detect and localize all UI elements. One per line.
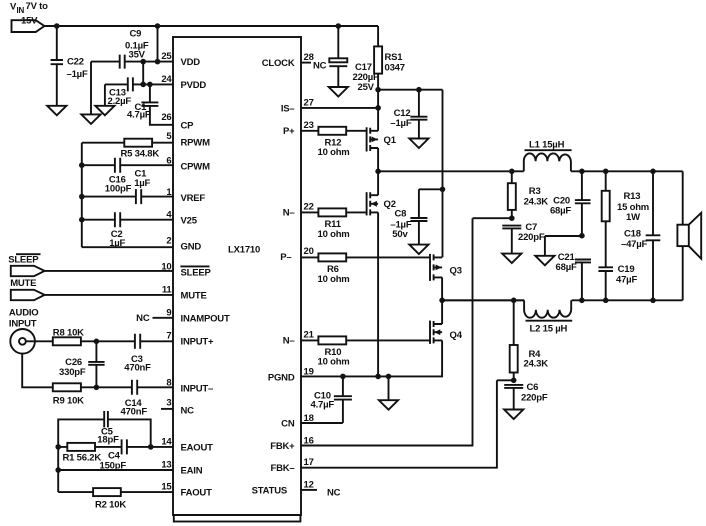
- capacitor C7: [502, 226, 521, 229]
- svg-text:R13: R13: [624, 191, 641, 202]
- svg-text:3: 3: [166, 398, 171, 409]
- node junction C13/pin24: [140, 82, 146, 88]
- wire C9 left to ground: [90, 62, 92, 115]
- node junction pin14 right: [148, 444, 154, 450]
- wire pin27 IS-: [301, 107, 378, 109]
- wire pin25 VDD row: [91, 61, 173, 63]
- svg-text:CP: CP: [181, 121, 195, 132]
- svg-text:68µF: 68µF: [556, 262, 577, 273]
- svg-text:Q1: Q1: [384, 135, 397, 146]
- node junction out/R13: [603, 169, 609, 175]
- svg-text:N–: N–: [283, 208, 295, 219]
- node junction bus/EAIN: [55, 467, 61, 473]
- node junction R9/C26/C14: [94, 385, 100, 391]
- node junction R4/C6/FBK-: [511, 378, 517, 384]
- svg-text:–1µF: –1µF: [390, 118, 411, 129]
- capacitor C8: [419, 189, 443, 217]
- op-amp U1 LX1710 IC body: [173, 37, 301, 515]
- wire L1 out segment: [571, 170, 683, 172]
- svg-text:EAIN: EAIN: [181, 465, 203, 476]
- svg-text:MUTE: MUTE: [181, 291, 207, 302]
- wire connector down to R9: [22, 354, 53, 388]
- wire Q4 source down and PGND rail: [301, 340, 442, 376]
- wire connector to R8: [34, 340, 53, 342]
- wire C13 left to ground: [104, 84, 106, 105]
- ground under C6: [504, 410, 523, 420]
- svg-text:7: 7: [166, 330, 171, 341]
- svg-text:470nF: 470nF: [121, 407, 148, 418]
- svg-text:22: 22: [304, 202, 314, 213]
- speaker LS1: [682, 171, 684, 224]
- node VIN input pointer: [12, 20, 45, 32]
- wire left bus EA: [57, 447, 59, 492]
- wire pin28 NC stub: [301, 62, 311, 64]
- ground under C17: [329, 87, 348, 97]
- svg-text:100pF: 100pF: [105, 184, 132, 195]
- capacitor C14: [132, 380, 137, 395]
- ground under C13: [95, 106, 114, 116]
- svg-text:C6: C6: [527, 382, 539, 393]
- svg-text:24: 24: [161, 74, 172, 85]
- wire pin4 V25 row: [82, 219, 173, 221]
- svg-text:INPUT: INPUT: [9, 319, 37, 330]
- node junction R8/C26/C3: [94, 339, 100, 345]
- svg-text:R5 34.8K: R5 34.8K: [121, 149, 160, 160]
- svg-text:12: 12: [304, 479, 314, 490]
- svg-text:0347: 0347: [385, 63, 405, 74]
- svg-text:5: 5: [166, 131, 172, 142]
- svg-text:27: 27: [304, 97, 314, 108]
- svg-text:20: 20: [304, 246, 314, 257]
- node junction P output: [375, 169, 381, 175]
- svg-text:24.3K: 24.3K: [524, 359, 549, 370]
- svg-text:R1 56.2K: R1 56.2K: [63, 453, 102, 464]
- resistor R4: [513, 300, 515, 380]
- wire pin7 INPUT+ row: [81, 340, 173, 342]
- node SLEEP input pointer: [11, 266, 45, 276]
- wire Q2 drain to P node: [377, 171, 379, 195]
- svg-text:2: 2: [166, 235, 171, 246]
- wire Q2 source down to PGND: [377, 212, 379, 376]
- wire pin21 N- row: [301, 339, 430, 341]
- svg-text:SLEEP: SLEEP: [181, 268, 212, 279]
- svg-text:1µF: 1µF: [134, 178, 150, 189]
- svg-text:INAMPOUT: INAMPOUT: [181, 314, 230, 325]
- svg-text:26: 26: [161, 112, 171, 123]
- svg-text:10 ohm: 10 ohm: [318, 147, 350, 158]
- transistor Q1: [366, 127, 368, 151]
- wire MUTE to pin11: [45, 294, 173, 296]
- svg-text:–47µF: –47µF: [621, 239, 648, 250]
- capacitor C2: [115, 212, 120, 227]
- ground under C12: [409, 139, 428, 149]
- svg-text:Q4: Q4: [450, 330, 463, 341]
- wire pin14 EAOUT row: [58, 446, 173, 448]
- node MUTE input pointer: [11, 290, 45, 300]
- wire C5 loop top: [58, 419, 151, 447]
- svg-text:47µF: 47µF: [616, 275, 637, 286]
- svg-text:25: 25: [161, 51, 172, 62]
- node junction VDD drop/pin25: [155, 59, 161, 65]
- wire C22 branch: [56, 26, 58, 60]
- svg-text:14: 14: [161, 436, 172, 447]
- capacitor C26: [88, 341, 104, 387]
- node junction rail/VDD drop: [155, 23, 161, 29]
- node junction out/C20: [579, 169, 585, 175]
- resistor R1: [67, 443, 95, 451]
- svg-text:EAOUT: EAOUT: [181, 442, 214, 453]
- svg-text:MUTE: MUTE: [10, 278, 36, 289]
- node junction IS-/bridge column: [375, 105, 381, 111]
- capacitor C12: [418, 90, 420, 117]
- resistor R10: [318, 336, 346, 344]
- svg-text:PVDD: PVDD: [181, 80, 207, 91]
- capacitor C6: [504, 385, 523, 388]
- svg-text:FBK–: FBK–: [270, 463, 294, 474]
- svg-text:SLEEP: SLEEP: [8, 254, 39, 265]
- resistor R2: [93, 488, 121, 496]
- wire C22 to ground: [56, 64, 58, 106]
- resistor R5: [124, 139, 152, 147]
- svg-text:INPUT–: INPUT–: [181, 384, 214, 395]
- svg-text:FBK+: FBK+: [270, 441, 295, 452]
- node junction bus/VREF: [79, 194, 85, 200]
- wire pin24 PVDD row: [105, 83, 173, 85]
- svg-text:21: 21: [304, 330, 315, 341]
- wire pin9 NC stub: [153, 317, 174, 319]
- svg-text:–1µF: –1µF: [67, 69, 88, 80]
- svg-text:220pF: 220pF: [518, 232, 545, 243]
- wire C8 column: [442, 90, 444, 258]
- wire RS1 node to C8 column: [378, 89, 442, 91]
- svg-text:4.7µF: 4.7µF: [127, 110, 151, 121]
- node junction N output: [439, 298, 445, 304]
- svg-text:INPUT+: INPUT+: [181, 336, 215, 347]
- svg-text:18pF: 18pF: [97, 435, 119, 446]
- svg-text:CN: CN: [281, 418, 295, 429]
- svg-text:IS–: IS–: [281, 103, 295, 114]
- wire pin8 INPUT- row: [81, 386, 173, 388]
- wire Q4 drain to N node: [441, 300, 443, 324]
- svg-text:STATUS: STATUS: [252, 485, 287, 496]
- svg-text:NC: NC: [136, 313, 150, 324]
- wire VIN top rail: [44, 25, 378, 27]
- wire C1 to pin26 CP: [150, 106, 173, 125]
- svg-text:7V to: 7V to: [26, 1, 49, 12]
- svg-text:IN: IN: [17, 6, 25, 15]
- svg-text:R9 10K: R9 10K: [53, 396, 84, 407]
- svg-text:10 ohm: 10 ohm: [318, 357, 350, 368]
- resistor RS1: [377, 26, 379, 90]
- svg-text:AUDIO: AUDIO: [9, 308, 39, 319]
- inductor L1: [524, 153, 571, 171]
- wire VDD drop from rail: [157, 26, 159, 62]
- wire FBK+ pin16 path: [301, 218, 512, 445]
- svg-text:CPWM: CPWM: [181, 162, 211, 173]
- wire C1 branch upper: [149, 84, 151, 101]
- capacitor C21: [575, 260, 591, 301]
- transistor Q2: [366, 192, 368, 215]
- ground at filter mid: [535, 256, 554, 265]
- wire N node to L2: [442, 299, 524, 301]
- svg-text:N–: N–: [283, 336, 295, 347]
- node junction pin14 left: [55, 444, 61, 450]
- wire pin12 NC stub: [301, 489, 317, 491]
- wire P node to L1: [378, 170, 524, 172]
- wire pin6 CPWM row: [82, 164, 173, 166]
- capacitor C5: [104, 411, 108, 427]
- capacitor C9: [120, 55, 125, 69]
- resistor R11: [318, 208, 346, 216]
- wire C9 node down to C13 row: [142, 62, 144, 85]
- resistor R13: [605, 171, 607, 267]
- svg-text:C8: C8: [395, 209, 407, 220]
- svg-text:VREF: VREF: [181, 193, 206, 204]
- resistor R9: [53, 383, 81, 391]
- svg-text:4.7µF: 4.7µF: [311, 400, 335, 411]
- svg-text:PGND: PGND: [268, 372, 295, 383]
- svg-text:NC: NC: [181, 405, 195, 416]
- svg-text:GND: GND: [181, 241, 202, 252]
- svg-text:RS1: RS1: [385, 52, 404, 63]
- node junction C1 branch: [147, 82, 153, 88]
- svg-text:11: 11: [162, 285, 173, 296]
- wire bottom output rail: [442, 299, 683, 301]
- svg-text:50v: 50v: [392, 229, 408, 240]
- node junction C8 branch: [440, 187, 446, 193]
- svg-text:CLOCK: CLOCK: [262, 58, 295, 69]
- wire C20/C21 mid to ground: [545, 236, 582, 256]
- audio input connector J1: [10, 329, 35, 354]
- svg-text:330pF: 330pF: [59, 367, 86, 378]
- node junction bus/V25: [79, 217, 85, 223]
- svg-text:NC: NC: [313, 61, 327, 72]
- svg-text:17: 17: [304, 457, 314, 468]
- wire Q1 source to P node: [377, 148, 379, 171]
- wire left bus for PWM cluster: [81, 143, 83, 248]
- ground PGND: [379, 400, 398, 410]
- resistor R12: [318, 127, 346, 135]
- node junction PGND/ground: [386, 374, 392, 380]
- wire Q1 drain: [377, 90, 379, 131]
- node junction bottom/C18: [650, 298, 656, 304]
- svg-text:6: 6: [166, 156, 171, 167]
- svg-text:R3: R3: [529, 186, 541, 197]
- ground under C8: [409, 245, 428, 255]
- transistor Q4: [429, 321, 431, 344]
- svg-text:C19: C19: [618, 264, 635, 275]
- wire pin3 NC stub: [161, 408, 173, 410]
- resistor R8: [53, 337, 81, 345]
- svg-text:Q3: Q3: [450, 265, 462, 276]
- svg-text:R2 10K: R2 10K: [95, 500, 126, 511]
- node junction rail/C17: [336, 23, 342, 29]
- wire FBK- pin17 path: [301, 380, 514, 467]
- node junction out/C18: [650, 169, 656, 175]
- svg-text:470nF: 470nF: [124, 363, 151, 374]
- transistor Q3: [429, 254, 431, 281]
- capacitor C20: [575, 171, 591, 235]
- capacitor C1 1uF: [136, 189, 141, 204]
- ground under C7: [502, 254, 521, 264]
- svg-text:9: 9: [166, 308, 171, 319]
- svg-text:68µF: 68µF: [550, 206, 571, 217]
- svg-text:R8 10K: R8 10K: [53, 328, 84, 339]
- svg-text:24.3K: 24.3K: [524, 197, 549, 208]
- svg-text:C22: C22: [67, 57, 84, 68]
- wire pin1 VREF row: [82, 196, 173, 198]
- svg-text:C12: C12: [394, 108, 411, 119]
- svg-text:15: 15: [161, 482, 172, 493]
- node junction bottom/R4: [511, 298, 517, 304]
- capacitor C16: [115, 158, 120, 173]
- node junction bus/CPWM: [79, 162, 85, 168]
- ground under C22: [47, 106, 66, 116]
- capacitor C3: [135, 334, 140, 349]
- wire Q3 source to N node: [441, 277, 443, 300]
- svg-text:P+: P+: [283, 126, 295, 137]
- resistor R6: [318, 253, 346, 261]
- wire pin18 CN row: [301, 422, 343, 424]
- capacitor C18: [646, 171, 661, 300]
- svg-text:13: 13: [161, 459, 171, 470]
- svg-text:VDD: VDD: [181, 57, 201, 68]
- wire pin20 P- row: [301, 256, 430, 258]
- capacitor C13: [128, 77, 133, 91]
- svg-text:10 ohm: 10 ohm: [318, 274, 350, 285]
- svg-text:23: 23: [304, 120, 314, 131]
- node junction C9/C13 drop: [140, 59, 146, 65]
- svg-text:P–: P–: [280, 252, 291, 263]
- wire pin13 EAIN row: [58, 469, 173, 471]
- capacitor C22: [51, 60, 63, 64]
- node junction bottom/C19: [603, 298, 609, 304]
- node junction bottom/C21: [579, 298, 585, 304]
- wire PGND ground stub: [388, 376, 390, 400]
- node junction PGND/C10: [340, 374, 346, 380]
- node junction RS1 bottom: [375, 87, 381, 93]
- resistor R3: [511, 171, 513, 218]
- ground under C9: [81, 114, 100, 124]
- svg-text:25V: 25V: [358, 82, 375, 93]
- capacitor C17 electrolytic: [337, 26, 339, 58]
- svg-text:10 ohm: 10 ohm: [318, 229, 350, 240]
- svg-text:C9: C9: [130, 29, 142, 40]
- capacitor C10: [342, 376, 344, 395]
- node junction C20/C21: [579, 233, 585, 239]
- wire pin22 N- row: [301, 211, 367, 213]
- inductor L2: [524, 300, 571, 317]
- wire pin15 FAOUT row: [58, 491, 173, 493]
- node junction P/R3: [509, 169, 515, 175]
- svg-text:LX1710: LX1710: [228, 245, 260, 256]
- svg-text:220pF: 220pF: [521, 393, 548, 404]
- svg-text:L1 15µH: L1 15µH: [529, 140, 565, 151]
- capacitor C4: [122, 439, 127, 454]
- capacitor C19: [598, 267, 613, 300]
- svg-text:10: 10: [161, 261, 171, 272]
- wire pin5 RPWM row: [82, 142, 173, 144]
- node SLEEP input label: [16, 253, 41, 255]
- svg-text:NC: NC: [327, 487, 341, 498]
- wire SLEEP to pin10: [45, 270, 173, 272]
- node junction C12 branch: [416, 87, 422, 93]
- wire pin2 GND row: [82, 246, 173, 248]
- svg-text:V25: V25: [181, 216, 198, 227]
- svg-text:1W: 1W: [626, 212, 640, 223]
- node junction PGND/Q2 source: [375, 374, 381, 380]
- node junction VIN/C22: [54, 23, 60, 29]
- svg-text:RPWM: RPWM: [181, 138, 211, 149]
- wire pin23 P+ row: [301, 130, 367, 132]
- node junction R3/C7/FBK+: [509, 215, 515, 221]
- svg-text:L2 15 µH: L2 15 µH: [530, 323, 568, 334]
- svg-text:FAOUT: FAOUT: [181, 488, 213, 499]
- capacitor C1 4.7uF: [141, 102, 158, 106]
- svg-text:C18: C18: [624, 229, 641, 240]
- svg-text:8: 8: [166, 378, 171, 389]
